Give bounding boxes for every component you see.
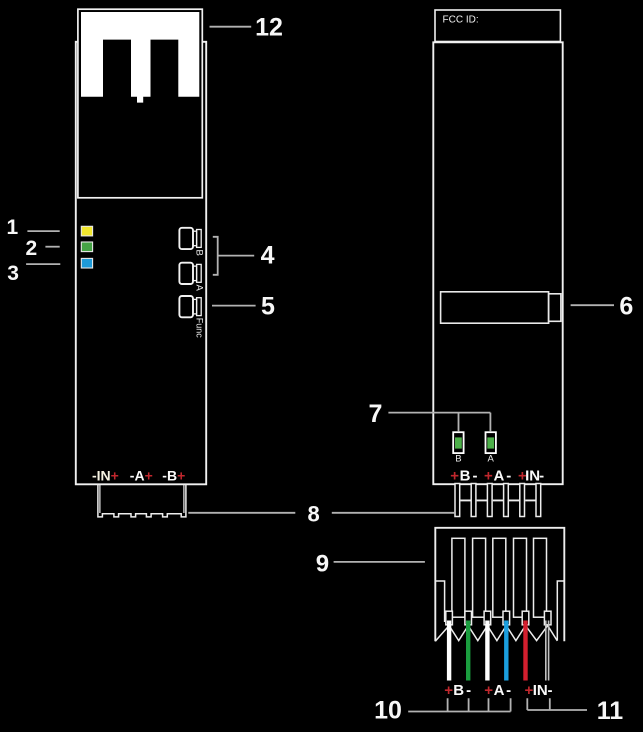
svg-text:B: B [460, 467, 471, 484]
svg-text:+: + [484, 467, 493, 484]
svg-text:Func: Func [194, 318, 204, 339]
svg-text:+: + [450, 467, 459, 484]
svg-text:A: A [494, 682, 505, 699]
svg-text:B: B [193, 250, 204, 256]
wire labels +B- +A- +IN- [444, 682, 552, 699]
SIM slot [441, 292, 549, 323]
svg-text:6: 6 [619, 292, 633, 320]
svg-text:12: 12 [255, 14, 283, 42]
wire gray IN- [546, 621, 549, 681]
svg-text:-: - [473, 467, 478, 484]
button B [179, 228, 201, 249]
right module body [433, 42, 562, 484]
wire red IN+ [523, 621, 527, 681]
SIM slot tab [549, 294, 561, 322]
svg-text:-: - [539, 467, 544, 484]
svg-text:-: - [506, 467, 511, 484]
svg-text:5: 5 [261, 292, 275, 320]
svg-text:8: 8 [307, 502, 319, 527]
left module top cap (logo box) [78, 9, 202, 198]
svg-text:B: B [453, 682, 464, 699]
divider slot 3 [493, 538, 506, 617]
pin 4 [504, 484, 509, 517]
pin bridges [460, 499, 536, 501]
status LED blue [81, 258, 92, 268]
svg-text:+: + [484, 682, 493, 699]
left bottom connector outline with feet [98, 484, 186, 517]
receptacle right step [557, 581, 564, 641]
pin 5 [520, 484, 525, 517]
wire terminal 3 [484, 611, 491, 625]
svg-text:A: A [193, 285, 204, 292]
svg-text:+: + [444, 682, 453, 699]
wire terminal 6 [544, 611, 551, 625]
divider slot 2 [473, 538, 486, 617]
receptacle left step [435, 581, 444, 622]
LED A (right module) [486, 432, 496, 453]
wire white A+ [485, 621, 489, 681]
svg-text:1: 1 [7, 216, 19, 239]
logo m [81, 12, 199, 103]
button Func [179, 296, 201, 317]
pin 2 [471, 484, 476, 517]
FCC label box [435, 10, 560, 42]
svg-text:-: - [548, 682, 553, 699]
svg-text:B: B [455, 453, 461, 464]
wire terminal 1 [446, 611, 453, 625]
divider slot 1 [452, 538, 465, 617]
left module body [76, 42, 206, 485]
svg-text:2: 2 [26, 237, 38, 260]
svg-text:-: - [466, 682, 471, 699]
svg-text:-B+: -B+ [162, 467, 185, 483]
svg-text:-: - [506, 682, 511, 699]
svg-text:-A+: -A+ [130, 467, 153, 483]
divider slot 4 [514, 538, 527, 617]
divider slot 5 [534, 538, 547, 617]
wire blue A- [504, 621, 508, 681]
wire white B+ [447, 621, 451, 681]
svg-text:11: 11 [597, 697, 624, 725]
svg-text:FCC ID:: FCC ID: [443, 15, 479, 26]
svg-text:9: 9 [316, 550, 329, 577]
svg-text:10: 10 [374, 696, 402, 724]
svg-text:-IN+: -IN+ [92, 467, 119, 483]
pin 3 [487, 484, 492, 517]
svg-text:4: 4 [261, 242, 275, 270]
pin 1 [455, 484, 460, 517]
svg-text:IN: IN [525, 467, 540, 484]
svg-text:A: A [488, 453, 495, 464]
svg-text:7: 7 [369, 400, 383, 428]
status LED green [81, 242, 92, 252]
receptacle zigzag bottom [435, 626, 557, 642]
status LED yellow [81, 226, 92, 236]
wire green B- [466, 621, 470, 681]
button A [179, 263, 201, 284]
wire terminal 4 [503, 611, 510, 625]
receptacle housing top [435, 528, 564, 641]
pin 6 [536, 484, 541, 517]
left bottom connector inner walls [100, 484, 184, 513]
right module terminal labels +B- +A- +IN- [450, 467, 544, 484]
LED B (right module) [453, 432, 463, 453]
svg-text:IN: IN [533, 682, 548, 699]
svg-text:A: A [493, 467, 504, 484]
svg-text:3: 3 [7, 262, 19, 285]
wire terminal 5 [522, 611, 529, 625]
wire terminal 2 [465, 611, 472, 625]
